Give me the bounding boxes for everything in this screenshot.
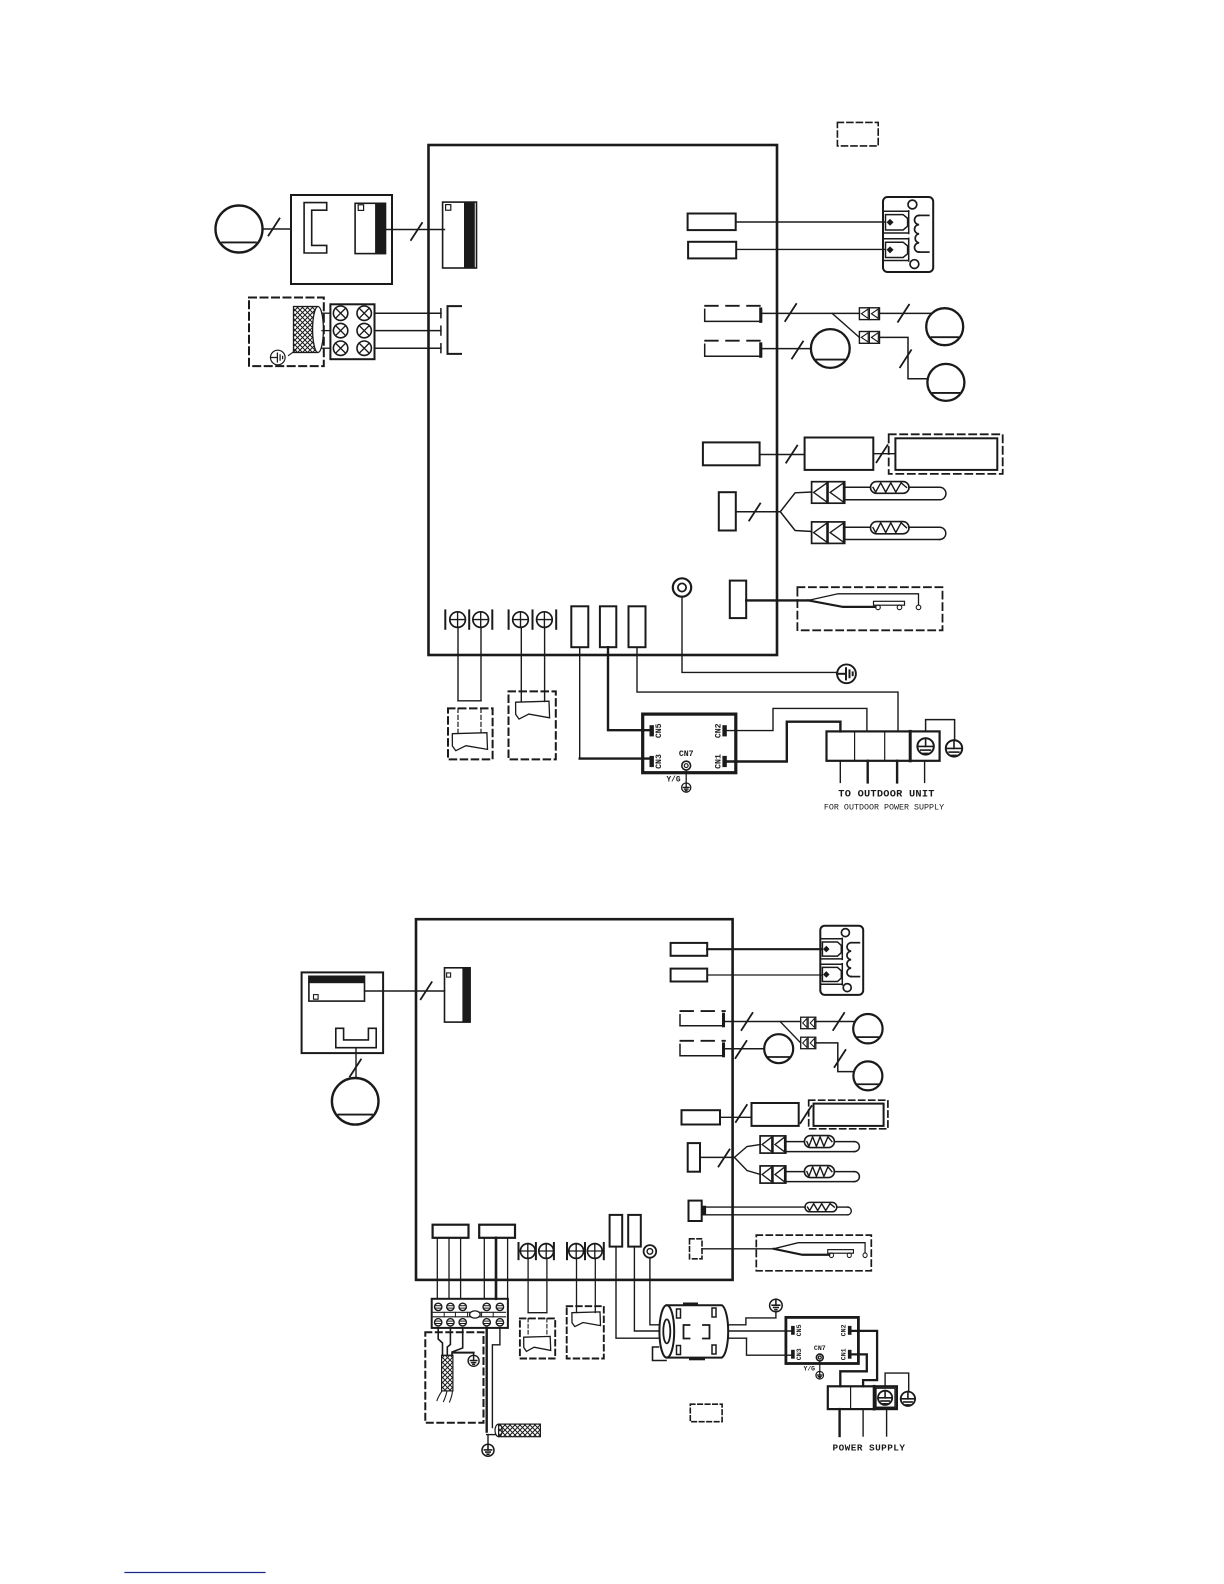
wire to float switch	[746, 599, 809, 601]
wire CN2 to power terminal (bottom)	[852, 1331, 877, 1386]
fan motor FM4 (bottom)	[853, 1014, 882, 1043]
PCB connector rect (display)	[703, 442, 760, 465]
power lead wire N	[492, 1328, 500, 1428]
svg-text:Y/G: Y/G	[667, 777, 681, 785]
wires rect2 to power terminal strip	[483, 1238, 485, 1299]
PCB connector rect (display, bottom)	[682, 1110, 721, 1124]
wire earth stud to chassis earth	[682, 597, 837, 673]
slash mark	[877, 445, 888, 462]
wire to fan relay contact	[763, 312, 860, 314]
earth terminal of transformer	[271, 350, 286, 365]
room temperature sensor (thermistor)	[812, 482, 845, 504]
stepping motor connector (bottom)	[820, 926, 863, 995]
wire to stepping motor pin 2	[736, 248, 884, 250]
receiver board (bottom)	[752, 1103, 799, 1126]
svg-text:CN5: CN5	[796, 1324, 803, 1336]
terminal interface box CN1/CN2/CN3/CN5/CN7	[643, 714, 736, 773]
PCB connector rect (louver output 2)	[688, 242, 736, 259]
dashed connector (float switch, bottom)	[690, 1239, 703, 1259]
connector plug (rotated)	[309, 976, 365, 1001]
wide connector rect 2 (board bottom)	[479, 1225, 515, 1238]
svg-text:CN1: CN1	[840, 1348, 847, 1360]
dashed remote box 2 (bottom)	[567, 1306, 604, 1358]
aux sensor capsule	[805, 1202, 837, 1211]
PCB bottom connector D (bottom)	[610, 1215, 623, 1247]
dashed float switch box (bottom)	[756, 1235, 871, 1271]
wire connector E through ferrite ring to CN5	[634, 1247, 791, 1331]
fan motor M (bottom diagram)	[332, 1078, 379, 1125]
dashed optional rect (top right)	[837, 122, 878, 145]
bracket terminal inside box	[304, 203, 327, 253]
slash mark on vertical	[835, 1050, 846, 1067]
wire box to PCB connector (bottom)	[365, 990, 445, 992]
wire box to PCB connector	[385, 229, 445, 231]
dashed power lead box	[425, 1332, 483, 1423]
earth link wire	[926, 720, 955, 740]
wired remote controller (optional)	[452, 733, 487, 751]
pin CN2	[723, 726, 726, 736]
float switch (bottom)	[774, 1243, 868, 1258]
cable braid (vertical)	[442, 1355, 453, 1391]
wire into fan motor FM1	[880, 312, 932, 314]
PCB connector rect (sensors, bottom)	[688, 1143, 700, 1172]
wire to sensor branch (bottom)	[700, 1156, 734, 1158]
dashed connector CN (fan lo)	[705, 340, 762, 342]
fan motor M1 (top-left)	[216, 206, 263, 253]
svg-text:CN3: CN3	[796, 1348, 803, 1360]
slash mark	[736, 1105, 747, 1122]
branch to pipe sensor (bottom)	[734, 1157, 760, 1174]
svg-text:CN7: CN7	[679, 750, 694, 759]
terminal interface box (bottom) CN	[786, 1317, 859, 1363]
wire to receiver board	[760, 454, 805, 456]
power lead wire L (thick)	[486, 1328, 488, 1432]
connector pair symbol 2	[859, 332, 879, 344]
connector plug CN (in box)	[355, 203, 385, 253]
slash mark	[792, 342, 803, 359]
dashed connector CN fan hi (bottom)	[681, 1010, 725, 1012]
pin CN1	[723, 756, 726, 766]
pin CN3	[650, 756, 653, 766]
external earth	[946, 740, 962, 756]
earth lead to external earth	[487, 1435, 489, 1445]
wire to float switch (bottom)	[702, 1248, 774, 1250]
dashed remote box 1 (bottom)	[520, 1318, 555, 1358]
slash mark	[786, 446, 797, 463]
pin CN5	[792, 1326, 795, 1334]
receiver / display sub board	[805, 438, 874, 470]
display board (bottom)	[814, 1104, 884, 1126]
cable sleeve braid (horizontal)	[495, 1424, 502, 1437]
slash mark	[742, 1013, 753, 1030]
indoor unit main PCB board (bottom diagram)	[416, 919, 733, 1280]
wire CN-A to CN3	[579, 647, 581, 758]
wire connector D through ferrite ring	[616, 1247, 747, 1339]
wire to stepping motor pin 1	[736, 221, 885, 223]
slash mark	[411, 223, 422, 240]
dashed display unit box	[889, 434, 1003, 474]
wire to display unit	[873, 453, 895, 455]
branch wire to room sensor	[780, 492, 811, 512]
indoor unit main PCB board (top diagram)	[429, 145, 778, 655]
slash mark	[421, 982, 432, 999]
connector housing bracket on PCB edge	[448, 306, 462, 354]
wire motor to capacitor box	[263, 228, 292, 230]
blue underline artifact	[125, 1572, 265, 1574]
terminal earth screw	[917, 738, 933, 754]
connector pair symbol (boxed triangles)	[859, 308, 879, 320]
connector socket on PCB edge (fan)	[443, 202, 477, 268]
power supply terminal block (bottom)	[828, 1386, 897, 1409]
branch wire to pipe sensor	[780, 512, 811, 532]
dashed remote controller box 2	[509, 691, 556, 759]
branch to room sensor (bottom)	[734, 1145, 760, 1158]
three wires transformer to terminal block	[322, 312, 330, 314]
slash mark on motor wire	[269, 219, 280, 236]
fan motor FM2 (right)	[927, 364, 964, 401]
earth wire and symbol in lead box	[453, 1352, 474, 1354]
PCB bottom connector CN-C	[629, 606, 646, 647]
fan motor FM5	[853, 1061, 882, 1090]
outdoor unit terminal block	[827, 731, 940, 760]
slash mark	[736, 1041, 747, 1058]
terminal block 2x3 screws	[330, 304, 374, 359]
stepping motor / louver motor connector	[883, 197, 933, 272]
svg-text:Y/G: Y/G	[804, 1366, 816, 1373]
connector pair symbol (bottom r3a)	[801, 1017, 816, 1028]
fan motor FM3	[811, 329, 850, 368]
wire to fan motor FM6	[725, 1048, 764, 1050]
wire to fan motor FM3	[763, 348, 811, 350]
dashed stubs (bottom)	[527, 1318, 529, 1336]
external earth (bottom)	[901, 1392, 915, 1406]
connector pair symbols |++| group 1 (bottom)	[518, 1243, 520, 1259]
svg-text:CN2: CN2	[714, 723, 723, 738]
branch diagonal (bottom)	[780, 1022, 801, 1043]
wire bracket to fan motor	[355, 1048, 357, 1079]
branch wire diagonal	[832, 313, 859, 337]
wire to receiver (bottom)	[720, 1116, 752, 1118]
wire to sensor branch	[736, 511, 781, 513]
pin CN1	[848, 1350, 851, 1358]
earth stud (bottom PCB)	[644, 1245, 657, 1258]
transformer coil winding (crosshatched)	[294, 307, 318, 353]
svg-text:CN1: CN1	[714, 754, 723, 769]
wide connector rect 1 (board bottom)	[433, 1225, 469, 1238]
PCB connector rect (sensors)	[719, 492, 736, 530]
PCB connector rect (louver 2, bottom)	[671, 969, 708, 982]
wire to connector pair	[725, 1021, 801, 1023]
connector pair symbols |++| group 2 (on PCB)	[508, 610, 510, 628]
wires into cable braid	[438, 1328, 442, 1355]
PCB connector rect (louver 1, bottom)	[671, 943, 708, 956]
wire elbow to fan motor FM2	[880, 337, 928, 378]
slash mark	[898, 305, 909, 322]
dashed stub wires	[457, 708, 459, 732]
earth stud (PCB)	[673, 578, 691, 596]
PCB bottom connector E (bottom)	[628, 1215, 641, 1247]
connector pair symbol (bottom r3b)	[801, 1037, 816, 1049]
wire CN-B to CN5	[608, 647, 650, 730]
svg-text:CN7: CN7	[814, 1345, 826, 1352]
three wires terminal block to PCB connector pins	[375, 312, 441, 314]
slash mark	[785, 304, 796, 321]
dashed connector CN fan lo (bottom)	[681, 1040, 725, 1042]
PCB bottom connector CN-B	[600, 606, 616, 647]
wire CN-C to terminal 3	[637, 647, 898, 731]
terminal earth screw (bottom)	[878, 1391, 892, 1405]
wire CN1 to outdoor terminal 1	[726, 722, 840, 762]
svg-text:TO OUTDOOR UNIT: TO OUTDOOR UNIT	[838, 789, 934, 801]
dashed optional wired remote box	[448, 708, 493, 759]
slash mark	[749, 504, 760, 521]
slash mark	[801, 1106, 812, 1123]
wire to stepping motor pin 1 (bottom)	[707, 948, 821, 950]
wires to outdoor unit	[839, 761, 841, 783]
wire earth stud through ring to earth	[650, 1258, 776, 1325]
chassis earth symbol	[837, 664, 856, 683]
aux sensor loop wires	[706, 1206, 805, 1208]
capacitor/terminal box	[291, 195, 392, 284]
wires to power supply	[838, 1409, 840, 1436]
connector pair symbols |++| group 2 (bottom)	[566, 1243, 568, 1259]
dashed connector CN (fan hi)	[705, 305, 762, 307]
display unit board	[895, 438, 997, 470]
wires group2 into remote box	[520, 627, 522, 701]
wires group1 to controller connector (bottom)	[527, 1258, 529, 1312]
wires group1 to wired controller connector	[457, 627, 459, 700]
PCB bottom connector CN-A	[571, 606, 588, 647]
dashed optional box (power transformer)	[249, 298, 324, 367]
svg-text:POWER SUPPLY: POWER SUPPLY	[833, 1443, 906, 1454]
svg-text:CN2: CN2	[840, 1324, 847, 1336]
power terminal strip (bottom left)	[432, 1299, 508, 1328]
fan motor FM1 (top right)	[926, 308, 963, 345]
slash mark	[833, 1013, 844, 1030]
pin CN2	[848, 1326, 851, 1334]
wires rect1 to power terminal strip	[436, 1238, 438, 1299]
wires group2 into remote box (bottom)	[576, 1258, 578, 1312]
earth link wire (bottom)	[885, 1373, 909, 1391]
slash mark on vertical	[900, 350, 911, 367]
wire elbow to fan motor FM5	[816, 1043, 854, 1072]
PCB connector rect (louver output 1)	[688, 214, 736, 231]
svg-text:FOR OUTDOOR POWER SUPPLY: FOR OUTDOOR POWER SUPPLY	[824, 803, 944, 813]
fan motor FM6	[764, 1034, 793, 1063]
pin CN5	[650, 726, 653, 736]
room temperature sensor (bottom)	[760, 1136, 786, 1153]
connector socket on PCB edge (bottom)	[445, 968, 471, 1022]
wired remote controller 2	[516, 701, 550, 719]
PCB connector rect (float switch)	[730, 581, 746, 619]
dashed display box (bottom)	[809, 1100, 888, 1129]
connector pair symbols |++| group 1 (on PCB)	[444, 610, 446, 628]
earth symbol near ring	[770, 1299, 783, 1312]
bracket terminal (rotated)	[336, 1028, 376, 1047]
wire to stepping motor pin 2 (bottom)	[707, 974, 821, 976]
wire CN1 to power terminal (bottom)	[840, 1354, 867, 1386]
wired remote controller 2 (bottom)	[572, 1312, 601, 1327]
dashed float switch box	[797, 587, 942, 630]
float switch / drain safety switch	[808, 594, 921, 610]
wired remote controller (bottom opt)	[524, 1336, 551, 1351]
slash mark	[719, 1150, 730, 1167]
svg-text:CN5: CN5	[655, 723, 664, 738]
wire into fan motor FM4	[816, 1021, 855, 1023]
slash mark	[350, 1060, 361, 1077]
svg-text:CN3: CN3	[655, 754, 664, 769]
pipe temperature sensor (thermistor)	[812, 522, 845, 544]
pipe temperature sensor (bottom)	[760, 1166, 786, 1183]
wire CN2 to outdoor terminal 2	[726, 708, 867, 731]
capacitor box (bottom diagram)	[302, 972, 384, 1053]
pin CN3	[792, 1350, 795, 1358]
small dashed rect (bottom)	[690, 1404, 722, 1422]
ferrite ring filter (cylinder)	[653, 1304, 729, 1361]
PCB connector rect (aux sensor)	[689, 1201, 702, 1221]
